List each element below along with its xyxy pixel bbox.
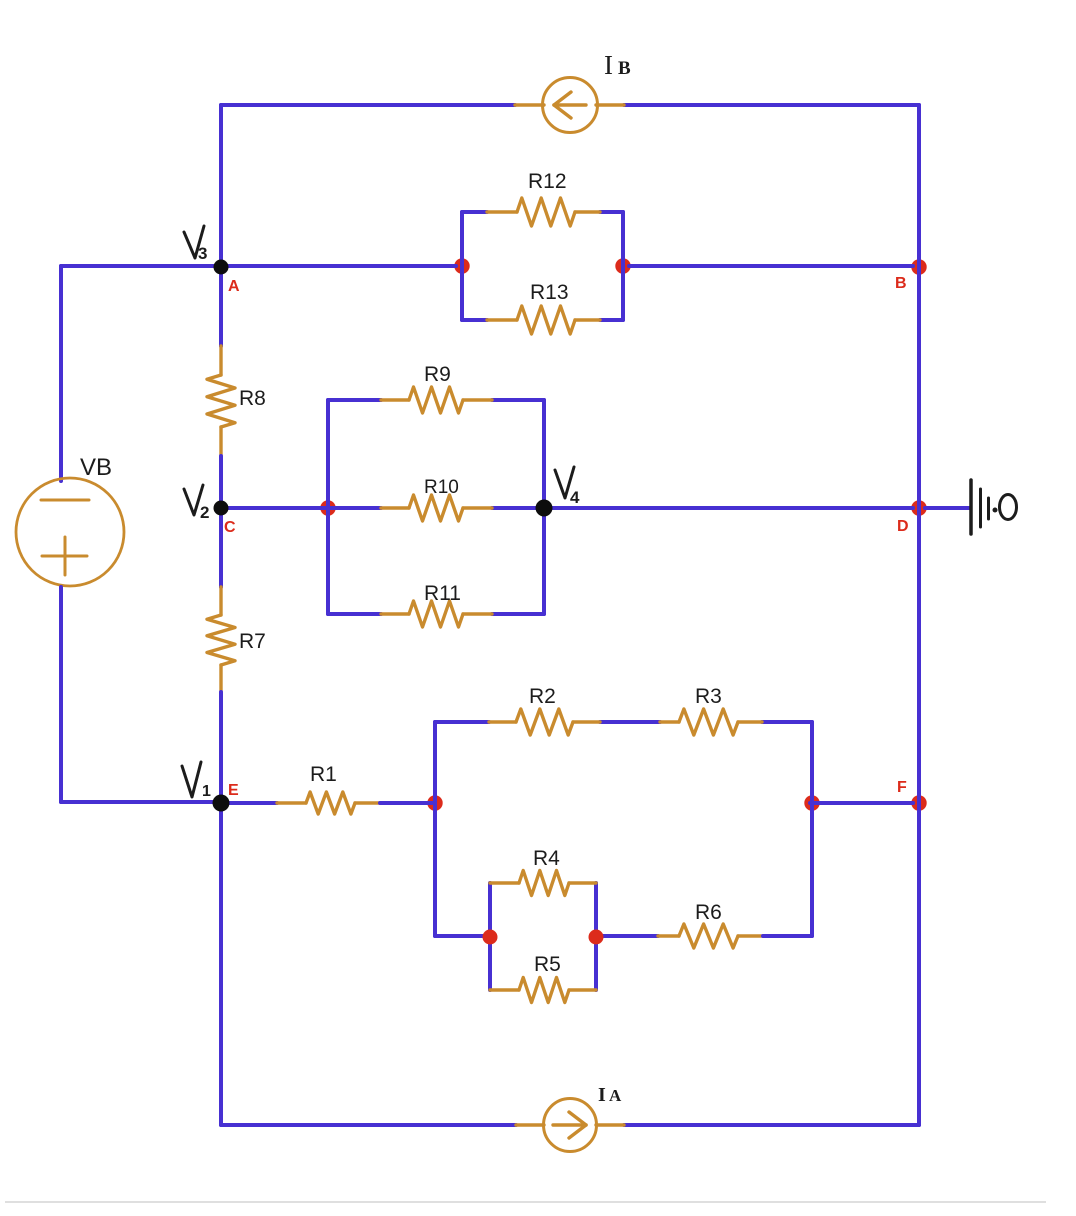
svg-text:F: F (897, 779, 907, 796)
svg-text:R8: R8 (239, 387, 266, 410)
node V1 (E) (213, 795, 230, 812)
resistor R5 (490, 988, 519, 991)
svg-text:1: 1 (202, 783, 211, 800)
svg-text:I: I (598, 1084, 606, 1106)
wire R6 to right drop (763, 934, 812, 938)
junction dot after R1 (427, 795, 442, 810)
label V1 (182, 762, 201, 797)
resistor R1 (277, 801, 306, 804)
node D (911, 500, 926, 515)
wire R9-R11 box right vertical (542, 400, 546, 614)
svg-text:B: B (895, 275, 907, 292)
svg-text:R3: R3 (695, 685, 722, 708)
svg-text:A: A (228, 278, 240, 295)
wire R9 rail (328, 398, 381, 402)
wire left outer bottom (59, 587, 63, 802)
wire R1 to junction (380, 801, 434, 805)
wire R4-R5 box left vertical (488, 883, 492, 990)
wire top rail left segment (221, 103, 515, 107)
resistor R13 (487, 318, 517, 321)
wire junction up to top branch (433, 722, 437, 803)
resistor R7 (219, 587, 222, 615)
wire R12 rail (462, 210, 487, 214)
wire bottom branch right riser (810, 803, 814, 936)
wire E to R1 (221, 801, 277, 805)
junction dot right of R4 box (589, 930, 604, 945)
resistor R8 (219, 346, 222, 375)
resistor R10 (381, 506, 409, 509)
wire R12-R13 box left vertical (460, 212, 464, 320)
wire R4-R5 box right vertical (594, 883, 598, 990)
svg-text:I: I (604, 50, 613, 80)
junction dot before F (804, 795, 819, 810)
svg-text:B: B (618, 58, 631, 79)
wire top rail right segment (624, 103, 919, 107)
svg-text:R6: R6 (695, 901, 722, 924)
wire top branch rail (435, 720, 489, 724)
junction dot left of R12 box (454, 258, 469, 273)
svg-text:R11: R11 (424, 582, 461, 605)
wire R8 to node C (219, 456, 223, 508)
wire C to R7 (219, 508, 223, 587)
resistor R9 (381, 398, 409, 401)
node B (911, 259, 926, 274)
wire A to R8 (219, 266, 223, 346)
node V4 (536, 500, 553, 517)
junction dot left of R4 box (483, 930, 498, 945)
wire R12-R13 box right vertical (621, 212, 625, 320)
node V3 (A) (214, 260, 229, 275)
svg-text:R13: R13 (530, 281, 569, 304)
wire top branch right drop (810, 722, 814, 803)
junction dot left of R9 box (320, 500, 335, 515)
wire row E left (61, 800, 221, 804)
svg-text:A: A (609, 1086, 622, 1105)
svg-text:VB: VB (80, 454, 112, 481)
wire C to middle box (221, 506, 333, 510)
svg-text:2: 2 (200, 503, 209, 522)
wire R5 box to R6 (602, 934, 658, 938)
wire junction down to bottom branch (433, 803, 437, 936)
svg-text:R4: R4 (533, 847, 560, 870)
svg-text:E: E (228, 782, 239, 799)
wire R10 rail (334, 506, 381, 510)
voltage source VB (16, 478, 124, 586)
resistor R12 (487, 210, 517, 213)
node F (911, 795, 926, 810)
ground symbol with value 1.0 (971, 480, 1017, 534)
wire row A left (61, 264, 456, 268)
wire bottom rail right (624, 1123, 919, 1127)
wire R9-R11 box left vertical (326, 400, 330, 614)
wire row A right (629, 264, 913, 268)
label V4 (555, 467, 574, 498)
node V2 (C) (214, 501, 229, 516)
wire R11 rail (328, 612, 381, 616)
wire left outer top (59, 266, 63, 481)
svg-text:R1: R1 (310, 763, 337, 786)
wire D to ground (925, 506, 969, 510)
label V3 (184, 226, 204, 258)
resistor R3 (660, 720, 679, 723)
wire junction to node F (810, 801, 913, 805)
resistor R6 (658, 934, 679, 937)
wire left drop from top rail to node A (219, 105, 223, 262)
svg-text:4: 4 (570, 488, 580, 507)
bottom divider line (5, 1201, 1046, 1203)
wire bottom rail left (221, 1123, 516, 1127)
wire R7 to node E and down to bottom rail (219, 692, 223, 1125)
svg-text:R5: R5 (534, 953, 561, 976)
wire R13 rail (462, 318, 487, 322)
wire right rail (917, 105, 921, 1125)
resistor R4 (490, 881, 519, 884)
svg-text:R7: R7 (239, 630, 266, 653)
current source IB (515, 78, 624, 133)
svg-text:R10: R10 (424, 477, 459, 498)
current source IA (516, 1099, 624, 1152)
label V2 (184, 485, 203, 515)
svg-text:3: 3 (198, 244, 207, 263)
svg-text:D: D (897, 518, 909, 535)
resistor R11 (381, 612, 409, 615)
wire V4 to node D (544, 506, 913, 510)
svg-text:R2: R2 (529, 685, 556, 708)
svg-text:R12: R12 (528, 170, 567, 193)
resistor R2 (489, 720, 516, 723)
svg-text:R9: R9 (424, 363, 451, 386)
junction dot right of R12 box (615, 258, 630, 273)
svg-text:C: C (224, 519, 236, 536)
wire to R4-R5 box (435, 934, 484, 938)
